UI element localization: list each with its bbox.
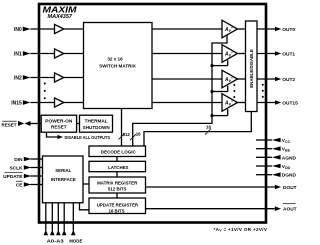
label A0-A3 — [47, 238, 65, 243]
ellipsis dots outputs — [262, 84, 264, 98]
svg-text:DGND: DGND — [282, 173, 297, 179]
svg-text:16: 16 — [136, 131, 141, 136]
svg-text:OUT0: OUT0 — [282, 27, 295, 33]
input pin IN0 — [14, 27, 54, 33]
address pin line A2 — [56, 203, 61, 236]
svg-text:THERMAL: THERMAL — [85, 119, 108, 124]
input pin IN1 — [14, 51, 54, 57]
wire matrix register to DOUT — [146, 186, 275, 188]
svg-text:UPDATE: UPDATE — [3, 174, 23, 180]
svg-text:DIN: DIN — [14, 157, 23, 163]
connector latches-matrixreg — [116, 172, 118, 177]
bus 16 enable — [144, 112, 251, 147]
svg-text:DISABLE ALL OUTPUTS: DISABLE ALL OUTPUTS — [65, 135, 111, 140]
supply pin VDD — [256, 164, 291, 170]
disable all outputs arrow — [47, 132, 111, 140]
input buffer 1 — [55, 49, 84, 58]
serial pin DIN — [14, 157, 42, 163]
output pin OUT15 — [275, 100, 298, 106]
switch matrix block — [84, 23, 153, 109]
input buffer 0 — [55, 24, 84, 33]
bus 16 gain control — [130, 131, 141, 140]
junction dot amp4 — [210, 114, 213, 117]
wire enable to OUT0 — [257, 28, 275, 30]
input buffer 15 — [55, 98, 84, 107]
svg-text:IN1: IN1 — [14, 51, 22, 57]
svg-text:ENABLE/DISABLE: ENABLE/DISABLE — [249, 49, 254, 88]
svg-text:UPDATE REGISTER: UPDATE REGISTER — [97, 202, 139, 207]
serial pin SCLK — [9, 165, 42, 171]
wire enable to OUT1 — [257, 53, 275, 55]
decode logic block — [89, 146, 146, 157]
svg-text:LATCHES: LATCHES — [108, 165, 128, 170]
input pin IN15 — [11, 100, 54, 106]
wire matrix to amp U2 — [152, 53, 222, 55]
update register block — [89, 198, 146, 214]
svg-text:512: 512 — [123, 132, 131, 137]
svg-text:MAX4357: MAX4357 — [48, 14, 74, 20]
footnote gain note — [214, 227, 268, 233]
bus 512 matrix to decode — [119, 109, 131, 147]
address pin line A3 — [62, 203, 67, 236]
label MODE — [69, 238, 82, 243]
connector decode-latches — [116, 157, 118, 162]
thermal shutdown block — [80, 115, 113, 132]
supply pin VCC — [256, 138, 291, 144]
address pin line A1 — [50, 203, 55, 236]
svg-text:SHUTDOWN: SHUTDOWN — [83, 125, 110, 130]
output amp U2 — [222, 45, 246, 63]
reset pin RESET — [1, 121, 41, 127]
svg-text:RESET: RESET — [51, 125, 67, 130]
svg-text:CE: CE — [16, 182, 23, 188]
power-on reset block — [41, 115, 76, 132]
address pin line A0 — [44, 203, 49, 236]
wire matrix to amp U1 — [152, 28, 222, 30]
svg-text:MODE: MODE — [69, 238, 82, 243]
supply pin AGND — [256, 155, 296, 161]
wire serial to matrix register — [83, 183, 89, 185]
output amp U3 — [222, 70, 246, 88]
matrix register block — [89, 177, 146, 193]
svg-text:AGND: AGND — [282, 155, 297, 161]
svg-text:POWER-ON: POWER-ON — [45, 118, 72, 123]
enable/disable block — [246, 21, 258, 112]
svg-text:SWITCH MATRIX: SWITCH MATRIX — [99, 64, 137, 69]
junction dot amp2 — [210, 64, 213, 67]
serial interface block — [43, 156, 84, 203]
output pin OUT0 — [275, 27, 295, 33]
MAXIM logo — [43, 5, 78, 15]
part number MAX4357 — [48, 14, 74, 20]
wire serial to update register — [80, 203, 90, 210]
latches block — [89, 161, 146, 171]
supply pin DGND — [256, 172, 296, 178]
svg-text:DOUT: DOUT — [283, 185, 297, 191]
svg-text:A0-A3: A0-A3 — [47, 238, 65, 243]
wire enable to OUT2 — [257, 78, 275, 80]
serial pin UPDATE — [3, 173, 42, 180]
svg-text:MATRIX REGISTER: MATRIX REGISTER — [97, 181, 138, 186]
output amp U1 — [222, 20, 246, 38]
connector matrixreg-updatereg — [116, 193, 118, 198]
svg-text:32 x 16: 32 x 16 — [107, 57, 123, 62]
output pin OUT1 — [275, 51, 295, 57]
supply pin VEE — [256, 146, 290, 152]
ellipsis dots inputs — [44, 83, 46, 100]
svg-text:INTERFACE: INTERFACE — [51, 177, 76, 182]
svg-text:OUT15: OUT15 — [282, 101, 298, 107]
svg-text:SERIAL: SERIAL — [55, 168, 71, 173]
wire enable to OUT15 — [257, 102, 275, 104]
wire matrix to amp U4 — [152, 102, 222, 104]
svg-text:DECODE LOGIC: DECODE LOGIC — [101, 150, 137, 155]
wire update register to AOUT — [146, 208, 275, 210]
serial pin CE — [16, 181, 43, 188]
input buffer 2 — [55, 73, 84, 82]
input pin IN2 — [14, 75, 54, 81]
svg-text:AOUT: AOUT — [283, 207, 297, 213]
wire matrix to amp U3 — [152, 78, 222, 80]
output pin DOUT — [275, 185, 297, 191]
ellipsis dots amps — [233, 84, 235, 98]
mode pin line MODE — [71, 203, 76, 236]
svg-text:16 BITS: 16 BITS — [108, 208, 124, 213]
gain-control common wire — [133, 35, 228, 146]
output pin OUT2 — [275, 77, 295, 83]
svg-text:IN0: IN0 — [14, 27, 22, 33]
svg-text:IN2: IN2 — [14, 75, 22, 81]
svg-text:MAXIM: MAXIM — [43, 5, 78, 15]
svg-text:SCLK: SCLK — [9, 165, 23, 171]
svg-text:16: 16 — [206, 125, 211, 130]
svg-text:RESET: RESET — [1, 122, 16, 127]
wire POR to thermal — [77, 123, 80, 125]
frame border — [39, 4, 266, 223]
output amp U4 — [222, 94, 246, 112]
output pin AOUT — [275, 204, 297, 213]
junction dot amp3 — [210, 90, 213, 93]
svg-text:IN15: IN15 — [11, 100, 22, 106]
svg-text:OUT1: OUT1 — [282, 52, 295, 58]
svg-text:OUT2: OUT2 — [282, 77, 295, 83]
svg-text:512 BITS: 512 BITS — [108, 187, 127, 192]
